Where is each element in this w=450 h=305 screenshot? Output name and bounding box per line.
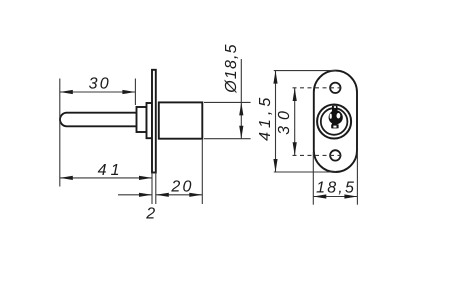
screw hole top <box>330 83 340 93</box>
arrow 30 left <box>60 90 73 94</box>
extension line body bottom right <box>204 138 251 140</box>
svg-text:18,5: 18,5 <box>316 179 356 196</box>
dashed centerline bottom hole <box>293 154 345 156</box>
cylinder outer circle <box>317 105 351 139</box>
arrow 41 left <box>60 176 73 180</box>
svg-text:Ø18,5: Ø18,5 <box>223 43 240 94</box>
svg-text:30: 30 <box>89 75 111 92</box>
arrow 41,5 up <box>273 71 277 84</box>
dimension line 30 vertical <box>294 88 296 155</box>
mounting flange plate (side view) <box>152 70 156 173</box>
extension line flange right below <box>155 173 157 205</box>
plunger rod (left view) <box>60 113 137 127</box>
arrow dia18,5 down <box>239 126 243 139</box>
lock body cylinder <box>159 102 203 138</box>
arrowheads left view <box>60 90 244 197</box>
arrow dia18,5 up <box>239 102 243 115</box>
arrow 30 up <box>293 88 297 101</box>
oval face plate <box>314 71 357 172</box>
extension line oval top <box>274 70 336 72</box>
extension line oval bottom <box>274 171 336 173</box>
svg-text:30: 30 <box>276 105 293 135</box>
cylinder inner circle <box>321 108 348 135</box>
dimension leader 2 <box>118 194 152 196</box>
dimension line 18,5 <box>313 196 357 198</box>
arrow 30 right <box>122 90 135 94</box>
dimension line 30 (rod length) <box>60 91 136 93</box>
dimension line 41,5 <box>275 71 277 172</box>
collar 2 (front lip) <box>147 103 153 138</box>
screw hole bottom <box>330 150 340 160</box>
dashed centerline top hole <box>274 71 358 205</box>
extension line body top right <box>204 101 251 103</box>
extension line 18,5 left <box>312 152 314 205</box>
arrow 41,5 down <box>273 159 277 172</box>
arrow 20 right <box>189 193 202 197</box>
extension line flange left below <box>151 173 153 205</box>
arrow 20 left <box>156 193 169 197</box>
dimension line dia 18,5 vertical <box>240 59 242 139</box>
svg-text:41: 41 <box>98 162 124 179</box>
arrow 18,5 right <box>344 194 357 198</box>
arrow 41 right <box>139 176 152 180</box>
dimension / extension thin lines <box>60 59 251 204</box>
extension line body rear below <box>201 139 203 204</box>
keyhole key shape <box>329 106 343 129</box>
collar 1 (neck) <box>137 107 147 132</box>
svg-text:20: 20 <box>170 178 193 195</box>
svg-text:41,5: 41,5 <box>257 94 274 141</box>
arrow 2 (outside, pointing right) <box>139 193 152 197</box>
svg-text:2: 2 <box>145 205 157 222</box>
extension line 18,5 right <box>356 152 358 205</box>
arrow 30 down <box>293 142 297 155</box>
arrowheads right view <box>273 71 357 199</box>
extension line at rod tip <box>59 79 61 187</box>
extension line at collar front <box>134 79 136 106</box>
dimension line 20 <box>156 194 203 196</box>
dimension line 41 <box>60 177 152 179</box>
arrow 18,5 left <box>313 194 326 198</box>
